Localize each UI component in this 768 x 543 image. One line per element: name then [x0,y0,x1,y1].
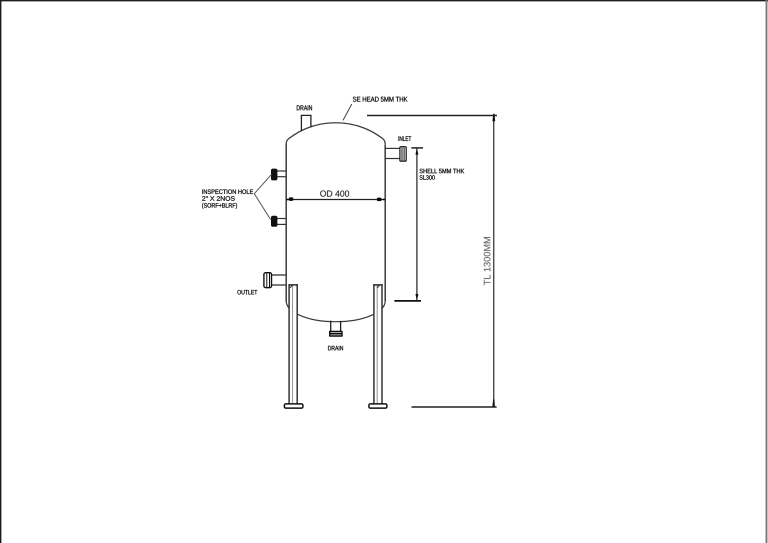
OD dimension left arrow [289,197,294,201]
label DRAIN top [297,105,312,110]
label INLET [399,136,412,141]
inspection nozzle upper pipe [277,170,286,172]
top drain nozzle stub [301,115,311,131]
label INSPECTION HOLE [202,189,253,194]
label DRAIN bottom [328,346,343,350]
outlet nozzle pipe [271,274,286,276]
shell dimension bottom arrow [415,294,418,301]
leader line to upper inspection nozzle [254,174,271,193]
outlet nozzle flange [264,273,272,288]
shell dimension top arrow [415,148,418,155]
label SHELL 5MM THK [420,169,465,174]
page border left [0,0,2,543]
OD dimension right arrow [377,198,382,202]
label SE HEAD 5MM THK [353,97,408,102]
inspection nozzle upper flange [271,169,277,180]
left base plate [284,404,303,408]
TL dimension top extension line [367,115,497,117]
bottom drain flange [329,331,343,337]
left support leg [289,284,298,404]
vessel shell left wall [285,144,287,301]
right support leg [373,284,382,404]
inlet nozzle flange [400,147,406,162]
TL dimension bottom arrow [492,399,495,406]
TL dimension line [493,115,495,407]
label 2in X 2NOS [202,196,235,201]
leader line to lower inspection nozzle [254,194,270,220]
label OUTLET [237,290,257,295]
label SORF BLRF [202,203,237,209]
right base plate [369,404,387,408]
inspection nozzle lower flange [271,216,277,226]
TL dimension top arrow [492,114,495,122]
leader to top head [343,104,352,120]
vessel bottom head [286,301,385,322]
shell dimension top tick [411,147,423,149]
TL dimension bottom extension line [412,406,497,408]
label SL300 [420,175,435,180]
bottom drain nozzle stub [330,321,332,331]
shell dimension line [416,148,418,300]
page border right [766,0,768,543]
inlet nozzle pipe [385,147,400,149]
inspection nozzle lower pipe [277,218,286,220]
page border top [0,0,768,2]
vessel top head [286,123,385,144]
label OD 400 [320,190,349,196]
label TL 1300MM [484,237,491,285]
vessel shell right wall [384,144,386,301]
shell dimension bottom tick [394,300,421,302]
OD 400 dimension line [286,199,385,201]
